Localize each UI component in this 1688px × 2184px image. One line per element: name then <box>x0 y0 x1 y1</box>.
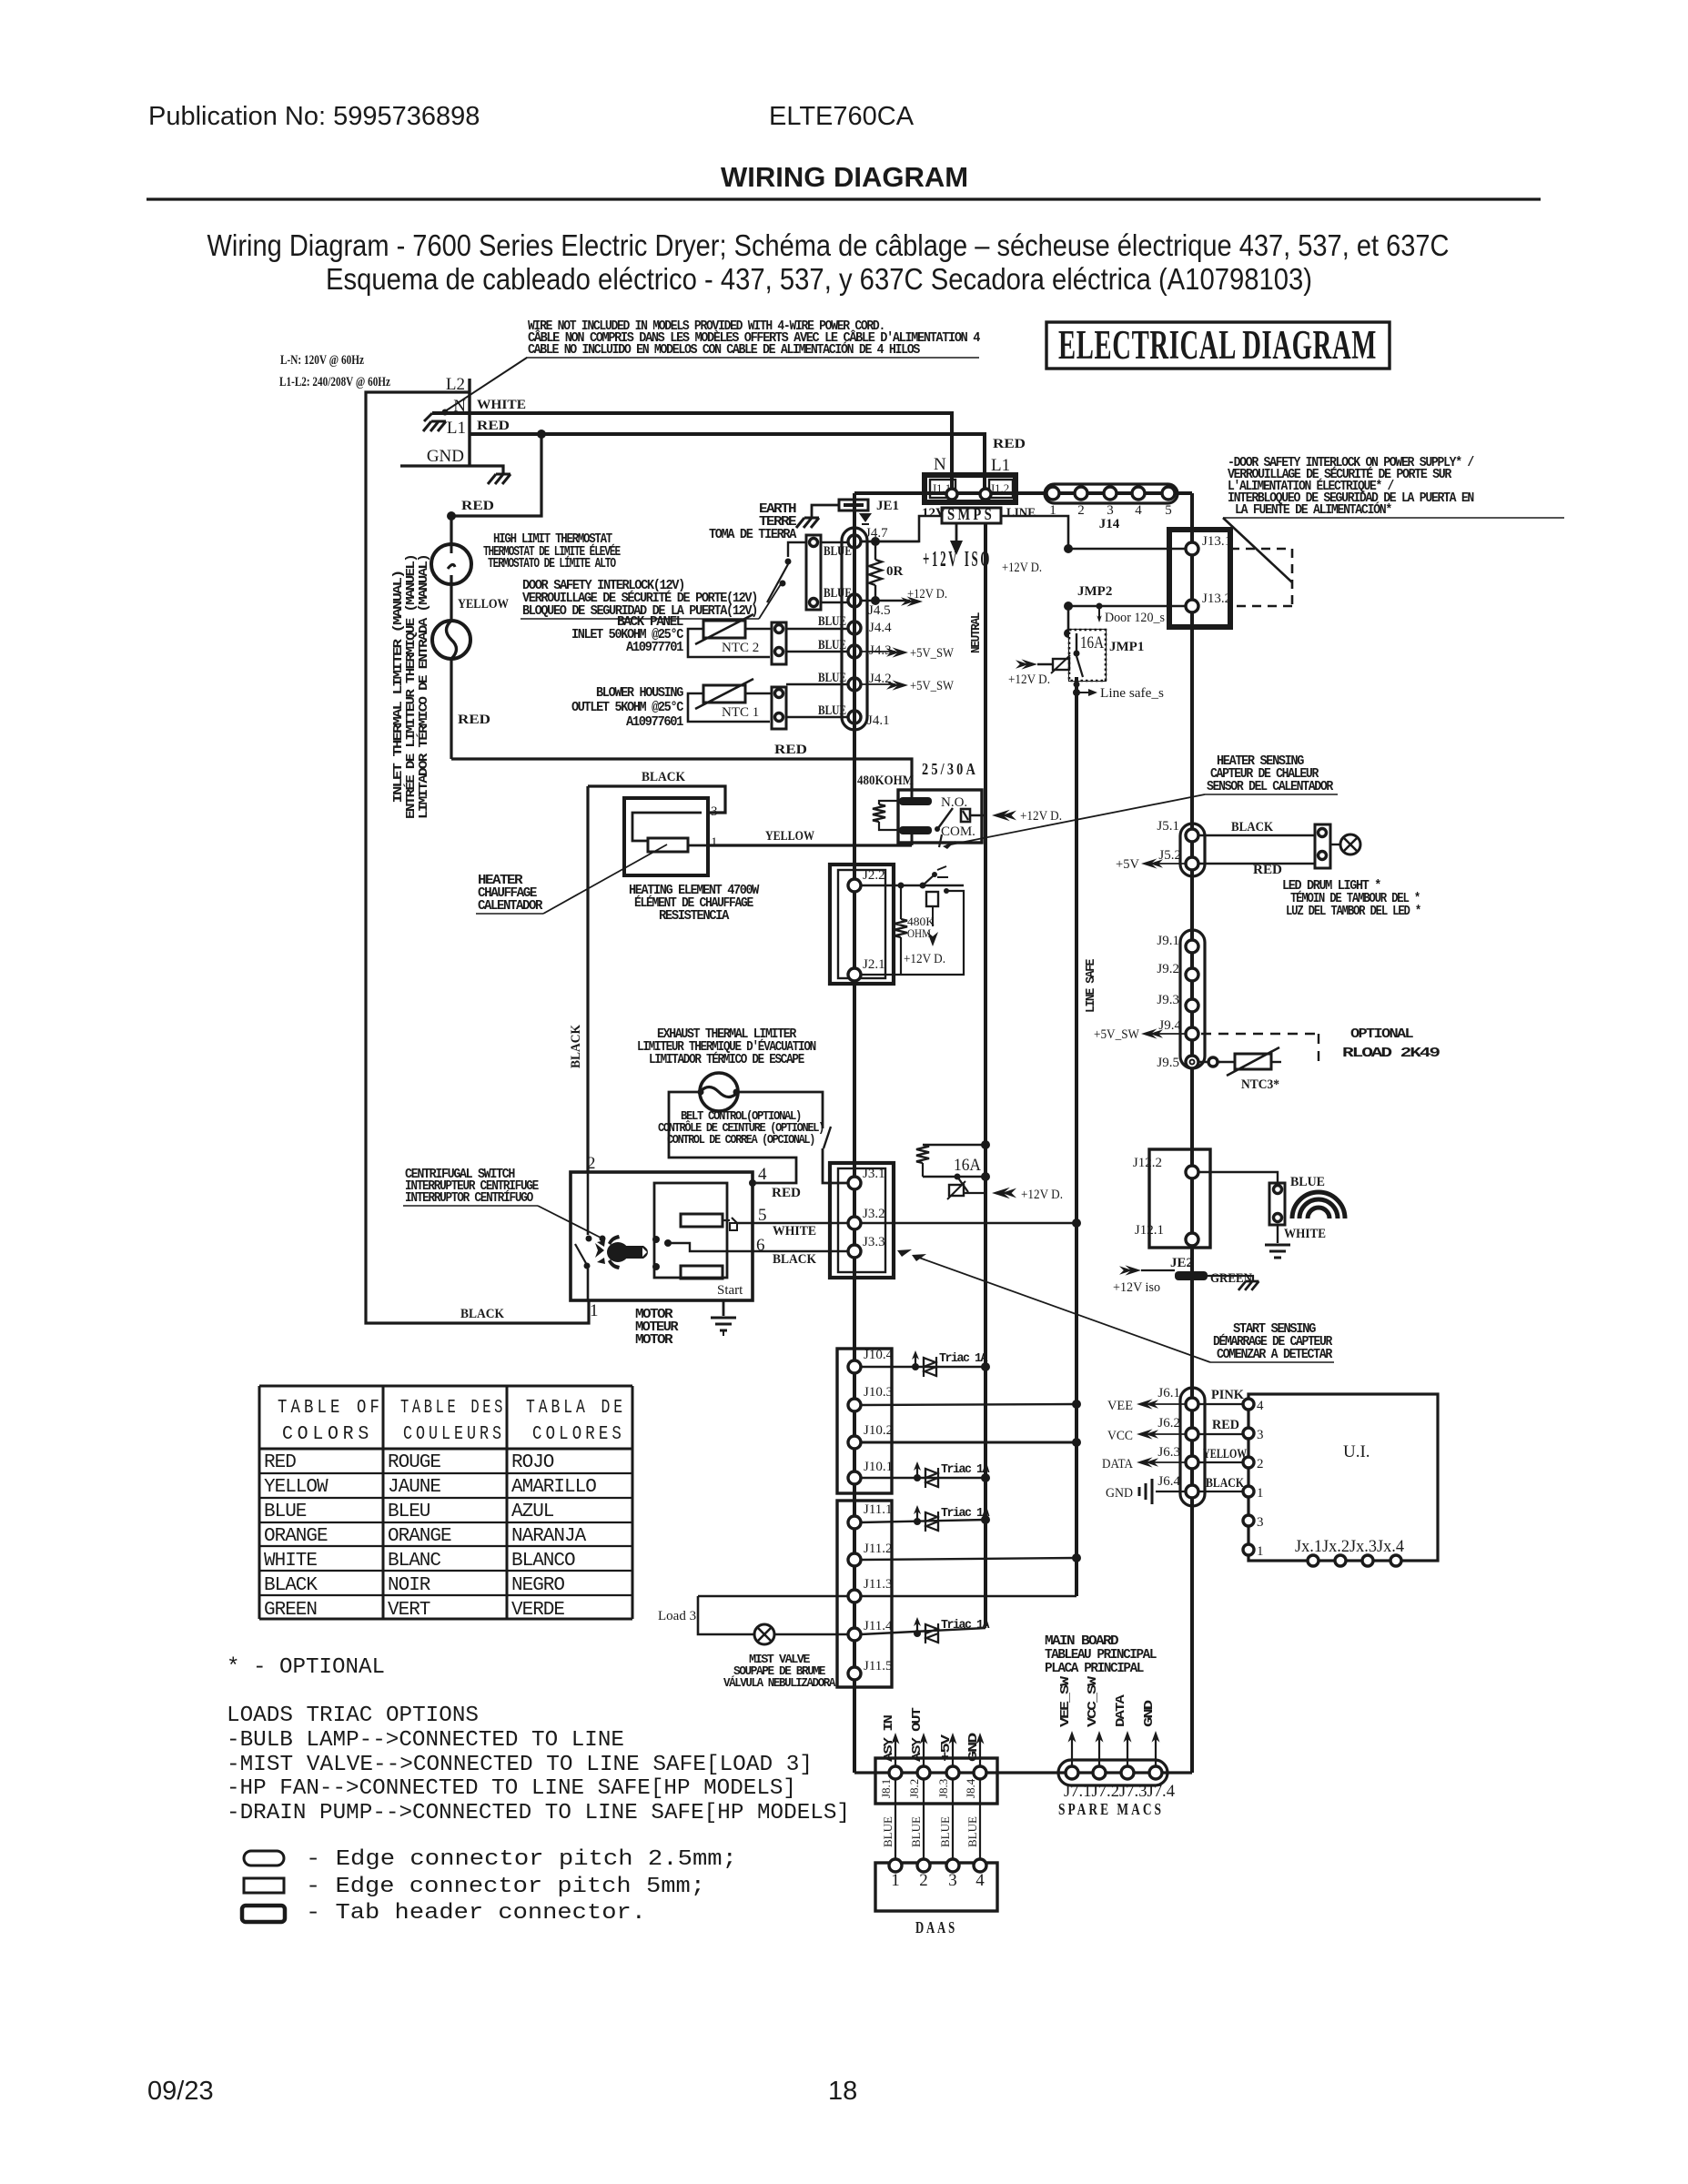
wifi arcs <box>1292 1192 1345 1218</box>
svg-text:ORANGE: ORANGE <box>388 1526 451 1547</box>
svg-text:LUZ DEL TAMBOR DEL LED *: LUZ DEL TAMBOR DEL LED * <box>1286 904 1420 919</box>
door switch dashed loop <box>1230 548 1292 551</box>
svg-text:J6.1: J6.1 <box>1157 1386 1180 1400</box>
pin J3.1 <box>848 1177 861 1189</box>
svg-text:GREEN: GREEN <box>1210 1271 1252 1286</box>
svg-text:AMARILLO: AMARILLO <box>511 1477 596 1498</box>
svg-text:J4.5: J4.5 <box>868 603 891 618</box>
pins J8.1-J8.4 + arrows up <box>889 1766 902 1779</box>
arrow +12V D. (relay) <box>992 810 1016 822</box>
svg-text:+12V D.: +12V D. <box>907 587 947 602</box>
legend: edge connector pitch 2.5mm <box>244 1851 284 1865</box>
heating element rect <box>648 838 688 852</box>
svg-text:J13.1: J13.1 <box>1202 534 1231 549</box>
pin J4.5 <box>848 594 861 607</box>
+12V ISO arrow from SMPS <box>955 523 958 542</box>
svg-text:SMPS: SMPS <box>947 505 995 523</box>
belt loop right segment + switch <box>738 1092 823 1128</box>
connector J8 box <box>875 1758 997 1804</box>
UI pins right column <box>1243 1399 1254 1410</box>
tab JE2 <box>1175 1271 1208 1280</box>
svg-text:WHITE: WHITE <box>1284 1227 1326 1241</box>
svg-text:2: 2 <box>919 1871 928 1890</box>
svg-text:Line safe_s: Line safe_s <box>1100 686 1164 701</box>
pin J6.2 <box>1186 1428 1198 1441</box>
UI box <box>1248 1394 1438 1561</box>
connector J11 box <box>837 1501 892 1687</box>
svg-text:J9.3: J9.3 <box>1157 993 1179 1007</box>
wire J11.2 to line safe <box>861 1558 1076 1560</box>
wire BLACK J6.4-UI <box>1198 1491 1243 1492</box>
svg-text:RED: RED <box>477 419 510 433</box>
wire SMPS 12V to J4.7 <box>854 516 942 541</box>
svg-text:BLUE: BLUE <box>938 1816 952 1847</box>
connector J13 box <box>1169 530 1230 627</box>
junction dot RED branch <box>537 430 546 439</box>
Line safe_s arrow + label <box>1076 692 1088 693</box>
svg-text:NARANJA: NARANJA <box>511 1526 587 1547</box>
wifi tab connector <box>1269 1183 1285 1225</box>
pin J12.1 <box>1186 1233 1198 1246</box>
svg-text:TOMA DE TIERRA: TOMA DE TIERRA <box>709 527 796 542</box>
pin J5.2 <box>1186 857 1198 870</box>
wire relay to neutral <box>970 814 986 816</box>
pin J2.1 <box>848 968 861 981</box>
480K OHM resistor branch <box>900 885 902 919</box>
svg-text:OHM: OHM <box>907 926 931 940</box>
svg-text:INTERRUPTOR CENTRÍFUGO: INTERRUPTOR CENTRÍFUGO <box>405 1189 533 1206</box>
pin J1.2 <box>980 489 991 500</box>
wire GND stub + chassis ground <box>400 466 503 474</box>
wire JMP2 <box>1068 605 1186 608</box>
svg-text:L1-L2: 240/208V @ 60Hz: L1-L2: 240/208V @ 60Hz <box>279 375 390 389</box>
svg-text:INLET THERMAL LIMITER (MANUAL): INLET THERMAL LIMITER (MANUAL) <box>392 571 406 804</box>
svg-text:COM.: COM. <box>941 824 975 839</box>
svg-text:BLUE: BLUE <box>1290 1175 1325 1189</box>
svg-text:BLACK: BLACK <box>569 1025 583 1068</box>
wire J9.4 +5V_SW arrow <box>1152 1033 1186 1035</box>
svg-text:-BULB LAMP-->CONNECTED TO LINE: -BULB LAMP-->CONNECTED TO LINE <box>227 1728 624 1753</box>
start switch contact <box>723 1218 737 1223</box>
svg-text:+12V D.: +12V D. <box>1008 672 1050 687</box>
svg-text:ROJO: ROJO <box>511 1452 554 1473</box>
svg-text:1: 1 <box>590 1301 599 1320</box>
svg-text:J9.1: J9.1 <box>1157 934 1179 948</box>
svg-text:YELLOW: YELLOW <box>1203 1447 1247 1461</box>
svg-text:J4.4: J4.4 <box>869 621 892 635</box>
sub switch marks <box>923 875 934 885</box>
svg-text:J10.3: J10.3 <box>864 1385 893 1400</box>
exhaust thermal limiter circle <box>700 1073 738 1111</box>
wire SMPS LINE to JMP column <box>1001 516 1068 549</box>
wire NTC1 to J4.2 BLUE <box>786 683 848 685</box>
pin J2.2 <box>848 879 861 892</box>
wire J11.4 triac to neutral <box>861 1628 986 1634</box>
motor winding 1 <box>681 1214 723 1227</box>
svg-text:-MIST VALVE-->CONNECTED TO LIN: -MIST VALVE-->CONNECTED TO LINE SAFE[LOA… <box>227 1753 813 1777</box>
pin J12.2 <box>1186 1166 1198 1178</box>
svg-text:BLANC: BLANC <box>388 1551 440 1572</box>
svg-text:RED: RED <box>1253 863 1282 877</box>
fuse box <box>1053 659 1069 670</box>
svg-text:* - OPTIONAL: * - OPTIONAL <box>227 1655 385 1680</box>
connector J6 oval <box>1180 1388 1205 1506</box>
svg-text:L-N: 120V @ 60Hz: L-N: 120V @ 60Hz <box>280 353 364 368</box>
svg-text:PINK: PINK <box>1211 1388 1244 1402</box>
pin J11.3 <box>848 1590 861 1603</box>
wire J3.2 to line safe <box>861 1222 1076 1224</box>
wire J2.1 bottom loop <box>900 974 902 976</box>
svg-text:J7.1J7.2J7.3J7.4: J7.1J7.2J7.3J7.4 <box>1064 1782 1175 1801</box>
svg-text:+12V D.: +12V D. <box>1020 809 1062 824</box>
svg-text:J9.5: J9.5 <box>1157 1056 1179 1070</box>
svg-text:BLUE: BLUE <box>818 703 846 718</box>
left boundary wire from L2 top to motor pin 1 <box>366 392 589 1323</box>
svg-text:SPARE MACS: SPARE MACS <box>1058 1800 1164 1818</box>
connector J1.2 slot <box>989 480 1013 498</box>
svg-text:+12V ISO: +12V ISO <box>923 548 992 571</box>
svg-text:JMP1: JMP1 <box>1109 640 1144 654</box>
svg-text:RED: RED <box>458 713 490 727</box>
connector J4 oval <box>842 528 867 730</box>
connector J1 outer <box>925 475 1016 502</box>
svg-text:J4.1: J4.1 <box>867 713 890 728</box>
pin J10.2 <box>848 1436 861 1449</box>
junction 0R top <box>871 537 880 546</box>
svg-text:NTC 1: NTC 1 <box>722 705 759 720</box>
svg-text:480KOHM: 480KOHM <box>857 773 914 788</box>
svg-text:3: 3 <box>1107 503 1114 518</box>
svg-text:5: 5 <box>1165 503 1172 518</box>
pins J7.1-J7.4 + arrows <box>1066 1766 1078 1779</box>
svg-text:RED: RED <box>1212 1418 1239 1432</box>
svg-text:CONTROL DE CORREA (OPCIONAL): CONTROL DE CORREA (OPCIONAL) <box>667 1134 814 1148</box>
connector J1.1 slot <box>930 480 955 498</box>
relay N.O. tab <box>899 797 932 805</box>
+12V iso arrow to JE2 <box>1119 1265 1141 1275</box>
svg-text:J11.4: J11.4 <box>864 1619 893 1633</box>
wire BLACK vertical to motor pin 2 <box>586 786 589 1172</box>
wire YELLOW heater to relay <box>708 844 912 846</box>
callout from note to N terminal <box>445 358 527 411</box>
svg-text:3: 3 <box>948 1871 957 1890</box>
wire J10.2 to line safe <box>861 1441 1076 1444</box>
svg-text:LIMITADOR TÉRMICO DE ENTRADA (: LIMITADOR TÉRMICO DE ENTRADA (MANUAL) <box>417 555 431 819</box>
connector J2 box <box>830 864 894 984</box>
SMPS box <box>942 508 1001 523</box>
svg-text:NOIR: NOIR <box>388 1575 431 1596</box>
fuse/interlock arrow +12V D. into JMP1 <box>1016 659 1037 669</box>
relay coil <box>879 801 905 804</box>
relay COM tab <box>899 826 932 834</box>
svg-text:J13.2: J13.2 <box>1202 591 1231 606</box>
pin J10.4 <box>848 1360 861 1373</box>
svg-text:BLUE: BLUE <box>818 671 846 685</box>
svg-text:+12V D.: +12V D. <box>1002 561 1042 575</box>
terminal block vertical L2/N/L1/GND <box>468 379 470 467</box>
svg-text:J9.4: J9.4 <box>1158 1018 1181 1033</box>
svg-text:COLORS: COLORS <box>282 1424 373 1445</box>
svg-text:WIRING DIAGRAM: WIRING DIAGRAM <box>721 161 968 193</box>
centrifugal actuator (bowtie) <box>595 1235 648 1269</box>
wifi ground <box>1265 1245 1290 1258</box>
svg-text:Esquema de cableado eléctrico: Esquema de cableado eléctrico - 437, 537… <box>326 262 1312 296</box>
svg-text:YELLOW: YELLOW <box>458 597 509 612</box>
pin J6.1 <box>1186 1398 1198 1410</box>
svg-text:ASY OUT: ASY OUT <box>911 1707 925 1762</box>
pin J11.4 <box>848 1628 861 1641</box>
svg-text:+12V D.: +12V D. <box>904 952 945 966</box>
ground (chassis) at white wire start <box>424 413 432 421</box>
svg-text:- Tab header connector.: - Tab header connector. <box>306 1901 646 1926</box>
svg-text:RED: RED <box>774 743 807 757</box>
svg-text:J9.2: J9.2 <box>1157 962 1179 976</box>
wire JE2 to chassis ground <box>1208 1276 1253 1281</box>
svg-text:Load 3: Load 3 <box>658 1609 696 1623</box>
wire JMP column down to 16A box <box>1067 606 1070 633</box>
connector J5 oval <box>1180 824 1205 876</box>
pin J5.1 <box>1186 829 1198 842</box>
svg-text:ROUGE: ROUGE <box>388 1452 440 1473</box>
svg-text:GREEN: GREEN <box>264 1600 317 1621</box>
pin J13.1 <box>1186 542 1198 555</box>
svg-text:N.O.: N.O. <box>941 795 967 810</box>
title box: ELECTRICAL DIAGRAM <box>1046 322 1390 369</box>
svg-text:JE2: JE2 <box>1170 1256 1193 1270</box>
door switch blade (diagonal) <box>1223 518 1292 582</box>
main bus right vertical (J14 to J7) <box>1190 493 1194 1773</box>
wire RED branch down to thermostat column <box>451 434 541 544</box>
svg-text:12V: 12V <box>922 506 945 521</box>
svg-text:TABLE DES: TABLE DES <box>400 1398 506 1419</box>
svg-text:J3.3: J3.3 <box>863 1235 885 1249</box>
door switch left wires <box>788 542 806 557</box>
connector J10 box <box>837 1349 892 1493</box>
wire RED to relay <box>451 759 912 790</box>
svg-text:L1: L1 <box>447 419 466 438</box>
pin J4.3 <box>848 645 861 658</box>
wire J5.1 to LED tab <box>1198 834 1315 836</box>
tab JE1 <box>839 500 868 511</box>
svg-text:J11.1: J11.1 <box>864 1502 893 1517</box>
wire below JMP1 to line safe bus <box>1075 677 1078 1596</box>
wire J4.7 to SMPS (blue) <box>861 541 919 543</box>
svg-text:4: 4 <box>758 1165 767 1184</box>
main bus horizontal JE1-J1-J14 wire <box>854 491 1192 495</box>
callout centrifugal to switch <box>538 1206 602 1239</box>
svg-text:WHITE: WHITE <box>773 1224 816 1239</box>
svg-text:DAAS: DAAS <box>915 1918 957 1936</box>
callout start sensing to J3.3 <box>919 1258 1210 1362</box>
pin J6.3 <box>1186 1456 1198 1469</box>
wire J5.2 +5V arrow <box>1152 863 1186 864</box>
svg-text:NEGRO: NEGRO <box>511 1575 564 1596</box>
svg-text:CABLE NO INCLUIDO EN MODELOS C: CABLE NO INCLUIDO EN MODELOS CON CABLE D… <box>528 341 920 358</box>
resistor 0R <box>874 541 876 560</box>
svg-text:BLACK: BLACK <box>1231 820 1273 834</box>
NTC2 outer box <box>688 629 770 657</box>
wire J4.5 +12V D. <box>861 600 910 602</box>
wire VCC arrow <box>1148 1433 1186 1435</box>
NTC1 thermistor <box>703 685 745 703</box>
svg-text:BLACK: BLACK <box>264 1575 318 1596</box>
svg-text:RED: RED <box>264 1452 296 1473</box>
svg-text:1: 1 <box>1257 1544 1264 1559</box>
svg-text:+12V iso: +12V iso <box>1113 1280 1160 1295</box>
high limit thermostat (circle) <box>431 544 471 584</box>
svg-text:+5V: +5V <box>1116 857 1139 872</box>
svg-text:4: 4 <box>1257 1399 1264 1413</box>
connector J3 box <box>830 1163 894 1278</box>
pin J10.3 <box>848 1399 861 1411</box>
svg-text:BLUE: BLUE <box>264 1501 307 1522</box>
earth vertical + JE1 tab <box>853 493 856 531</box>
svg-text:BLUE: BLUE <box>824 586 852 601</box>
svg-text:CALENTADOR: CALENTADOR <box>478 898 542 914</box>
pin J3.2 <box>848 1217 861 1229</box>
svg-text:OUTLET 5KOHM @25°C: OUTLET 5KOHM @25°C <box>571 700 683 715</box>
svg-text:AZUL: AZUL <box>511 1501 554 1522</box>
svg-text:SENSOR DEL CALENTADOR: SENSOR DEL CALENTADOR <box>1207 779 1333 794</box>
svg-text:WHITE: WHITE <box>264 1551 317 1572</box>
svg-text:LA FUENTE DE ALIMENTACIÓN*: LA FUENTE DE ALIMENTACIÓN* <box>1235 501 1391 518</box>
connector J7 stadium (spare macs) <box>1058 1760 1167 1785</box>
svg-text:TABLA DE: TABLA DE <box>526 1398 626 1419</box>
svg-text:ELECTRICAL DIAGRAM: ELECTRICAL DIAGRAM <box>1058 322 1377 368</box>
svg-text:YELLOW: YELLOW <box>765 829 814 844</box>
LED drum light tab <box>1315 824 1330 868</box>
svg-text:VERT: VERT <box>388 1600 430 1621</box>
svg-text:J3.2: J3.2 <box>863 1207 885 1221</box>
DAAS box <box>875 1863 997 1911</box>
motor wire pin5 <box>737 1222 848 1224</box>
main bus center vertical <box>853 493 856 1773</box>
legend: tab header connector <box>242 1906 285 1922</box>
wire wifi tab to ground WHITE <box>1277 1225 1279 1243</box>
svg-text:BLUE: BLUE <box>818 638 846 652</box>
callout door text to switch <box>759 584 781 619</box>
svg-text:BLUE: BLUE <box>881 1816 895 1847</box>
svg-text:+5V_SW: +5V_SW <box>1094 1027 1140 1042</box>
svg-text:N: N <box>934 455 946 474</box>
svg-text:TABLE OF: TABLE OF <box>278 1398 383 1419</box>
wire lamp to J11.4 <box>774 1633 848 1635</box>
svg-text:16A: 16A <box>1080 633 1104 652</box>
svg-text:GND: GND <box>1106 1486 1133 1501</box>
svg-text:COMENZAR A DETECTAR: COMENZAR A DETECTAR <box>1217 1347 1332 1362</box>
svg-text:16A: 16A <box>954 1156 981 1175</box>
svg-text:4: 4 <box>975 1871 985 1890</box>
inlet thermal limiter (circle with S) <box>432 621 470 659</box>
svg-text:+12V D.: +12V D. <box>1021 1188 1063 1202</box>
svg-text:U.I.: U.I. <box>1343 1442 1370 1461</box>
NTC2 tab connector <box>772 622 786 664</box>
svg-text:3: 3 <box>1257 1515 1264 1530</box>
title rule <box>147 197 1541 200</box>
svg-text:NTC 2: NTC 2 <box>722 641 759 655</box>
svg-text:Jx.1Jx.2Jx.3Jx.4: Jx.1Jx.2Jx.3Jx.4 <box>1295 1537 1404 1556</box>
JMP1 switch <box>1074 651 1080 657</box>
wire RED from L1 to J1.2 <box>470 434 985 492</box>
heater box outer <box>624 798 708 875</box>
svg-text:RLOAD 2K49: RLOAD 2K49 <box>1342 1046 1440 1061</box>
svg-text:J12.2: J12.2 <box>1133 1156 1162 1170</box>
door tab connector <box>806 535 821 610</box>
sub arrow down <box>932 906 934 926</box>
16A JMP1 dotted box <box>1069 630 1106 681</box>
svg-text:LIMITADOR TÉRMICO DE ESCAPE: LIMITADOR TÉRMICO DE ESCAPE <box>649 1051 804 1067</box>
svg-text:DATA: DATA <box>1102 1457 1133 1471</box>
arrow +12V D. (16A) <box>992 1188 1016 1199</box>
LED lamp (circle with X) <box>1330 844 1340 845</box>
svg-text:BLUE: BLUE <box>818 614 846 629</box>
svg-text:2: 2 <box>587 1154 596 1173</box>
svg-text:Triac 1A: Triac 1A <box>941 1507 990 1521</box>
connector J14 stadium <box>1045 484 1178 503</box>
svg-text:J14: J14 <box>1099 517 1120 531</box>
motor internal vertical + contacts <box>587 1172 590 1235</box>
svg-text:1: 1 <box>1049 503 1056 518</box>
wire DATA arrow <box>1148 1461 1186 1463</box>
wire NTC1 to J4.1 BLUE <box>786 716 848 718</box>
wire PINK J6.1-UI <box>1198 1403 1243 1405</box>
wire YELLOW J6.3-UI <box>1198 1461 1243 1463</box>
neutral bus from SMPS down <box>984 523 987 1626</box>
svg-text:ASY IN: ASY IN <box>883 1714 896 1762</box>
pins J14 1-5 <box>1046 487 1059 500</box>
svg-text:J6.3: J6.3 <box>1157 1445 1180 1460</box>
pin J11.5 <box>848 1667 861 1680</box>
wire J4.3 +5V_SW <box>861 651 895 652</box>
svg-text:BLUE: BLUE <box>909 1816 923 1847</box>
callout heater sensing to relay COM <box>946 794 1205 845</box>
wire NTC2 to J4.3 BLUE <box>786 651 848 652</box>
svg-text:J3.1: J3.1 <box>863 1167 885 1181</box>
junction dot callout tip on white wire <box>442 409 449 416</box>
svg-text:COLORES: COLORES <box>532 1424 625 1445</box>
wire RED J6.2-UI <box>1198 1433 1243 1435</box>
svg-text:Triac 1A: Triac 1A <box>941 1463 990 1477</box>
wire BLACK to heater <box>588 786 725 813</box>
wire relay top/bottom stubs <box>911 790 914 797</box>
svg-text:GND: GND <box>427 447 464 466</box>
wire J10.3 to line safe <box>861 1404 1076 1405</box>
pin J3.3 <box>848 1245 861 1258</box>
svg-text:VEE_SW: VEE_SW <box>1059 1675 1073 1727</box>
svg-text:MOTOR: MOTOR <box>635 1332 673 1348</box>
motor ground <box>723 1300 725 1316</box>
pin J6.4 <box>1186 1485 1198 1498</box>
svg-text:LOADS TRIAC OPTIONS: LOADS TRIAC OPTIONS <box>227 1704 479 1728</box>
svg-text:ELTE760CA: ELTE760CA <box>769 102 915 131</box>
svg-text:A10977701: A10977701 <box>626 640 683 655</box>
wire J11.3 to line safe corner <box>861 1595 1076 1597</box>
svg-text:+5V: +5V <box>940 1734 954 1762</box>
heater inner loop <box>632 813 702 841</box>
pin J9.1 <box>1186 940 1198 953</box>
svg-text:J8.2: J8.2 <box>907 1779 921 1798</box>
svg-text:J11.2: J11.2 <box>864 1542 893 1556</box>
BLUE wires J8 to DAAS <box>895 1779 896 1860</box>
sub right loop <box>861 891 964 975</box>
pin J9.2 <box>1186 968 1198 981</box>
16A switch wire <box>923 1176 986 1178</box>
svg-text:J6.2: J6.2 <box>1157 1416 1180 1431</box>
svg-text:Start: Start <box>717 1283 743 1298</box>
svg-text:RED: RED <box>772 1186 801 1200</box>
svg-text:GND: GND <box>967 1733 981 1762</box>
junction 0R bottom <box>871 596 880 605</box>
